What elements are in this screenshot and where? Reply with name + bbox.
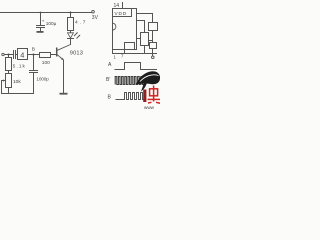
svg-text:4.7: 4.7 <box>75 20 87 26</box>
wire IC left to rail <box>112 50 114 54</box>
IC U2 body <box>113 9 137 50</box>
wiper arrowhead R4 <box>3 79 6 81</box>
ground bar Q1 emitter <box>60 93 68 95</box>
wiper arrow lead of R4 <box>2 80 5 82</box>
resistor R3 5.1k body <box>6 58 12 71</box>
svg-text:14: 14 <box>114 3 120 9</box>
node output terminal <box>152 56 155 59</box>
watermark dark bar <box>143 90 146 103</box>
pin 14 stub <box>122 3 124 9</box>
wire pin second <box>137 20 145 22</box>
transistor Q1 emitter <box>57 55 63 60</box>
node dot B junction <box>33 54 35 56</box>
watermark swoosh band <box>140 75 159 82</box>
resistor R4 10k body <box>6 74 12 88</box>
ground rail <box>113 53 157 55</box>
svg-text:100: 100 <box>42 60 50 66</box>
node supply terminal <box>92 11 95 14</box>
svg-text:www: www <box>144 105 155 110</box>
capacitor C1 100u plates <box>37 25 45 27</box>
svg-text:10k: 10k <box>13 79 21 85</box>
wire R3 to R4 <box>8 71 10 74</box>
resistor R1 4.7 body <box>68 18 74 31</box>
wire R1 branch <box>70 13 72 18</box>
VDD pin cell <box>113 16 132 18</box>
wire top supply rail <box>0 12 92 14</box>
wire input <box>5 54 14 56</box>
svg-text:7: 7 <box>121 54 124 59</box>
pin 7 stub <box>124 50 126 54</box>
node dot rail R1 <box>70 12 72 14</box>
transistor Q1 base bar <box>56 48 58 57</box>
svg-text:B: B <box>32 46 35 52</box>
wire C1 branch <box>40 13 42 26</box>
svg-text:VDD: VDD <box>115 11 128 16</box>
watermark swoosh hook <box>141 81 148 92</box>
node dot rail C1 <box>40 12 42 14</box>
svg-text:9013: 9013 <box>70 51 83 57</box>
LED D1 cathode bar <box>68 38 74 40</box>
IC notch <box>113 23 116 30</box>
svg-text:4: 4 <box>20 50 24 59</box>
waveform B' dense oscillation <box>115 77 145 85</box>
svg-text:100μ: 100μ <box>46 21 57 26</box>
LED D1 arrows <box>74 33 78 37</box>
svg-text:1000p: 1000p <box>37 76 50 81</box>
resistor R5 body <box>149 23 158 31</box>
wire node B down <box>33 55 35 71</box>
IC sub-box bottom <box>125 43 135 50</box>
amplifier block U1 box <box>18 49 28 60</box>
LED D1 triangle <box>68 33 74 38</box>
waveform B gated burst <box>116 93 145 100</box>
wire node B to R2 <box>34 54 40 56</box>
svg-text:+: + <box>42 19 45 24</box>
node dot input junction <box>8 54 10 56</box>
waveform A <box>115 63 158 70</box>
wire Q1 emitter down <box>63 60 65 93</box>
capacitor C3 input plates <box>13 51 15 59</box>
ground bar C1 <box>37 31 44 33</box>
svg-text:3V: 3V <box>92 15 99 21</box>
capacitor C2 1000p plates <box>30 70 38 72</box>
resistor R6 body <box>150 43 157 49</box>
wire D1 to Q1 <box>70 39 72 45</box>
svg-text:5.1k: 5.1k <box>13 63 26 68</box>
resistor R2 100 body <box>40 53 51 58</box>
svg-text:B: B <box>108 94 112 100</box>
watermark red glyph <box>148 86 161 104</box>
watermark swoosh <box>136 71 160 84</box>
node input terminal <box>2 53 4 55</box>
wire pin top right <box>137 13 153 15</box>
svg-text:A: A <box>108 62 112 68</box>
transistor Q1 collector <box>57 45 70 51</box>
crystal Y1 body <box>141 33 149 46</box>
wire R2 to base <box>51 54 57 56</box>
wire bottom return <box>2 93 34 95</box>
svg-text:B′: B′ <box>106 77 110 83</box>
wire junction to R3 <box>8 55 10 58</box>
svg-text:1: 1 <box>114 55 117 60</box>
wire U1 output <box>28 54 34 56</box>
